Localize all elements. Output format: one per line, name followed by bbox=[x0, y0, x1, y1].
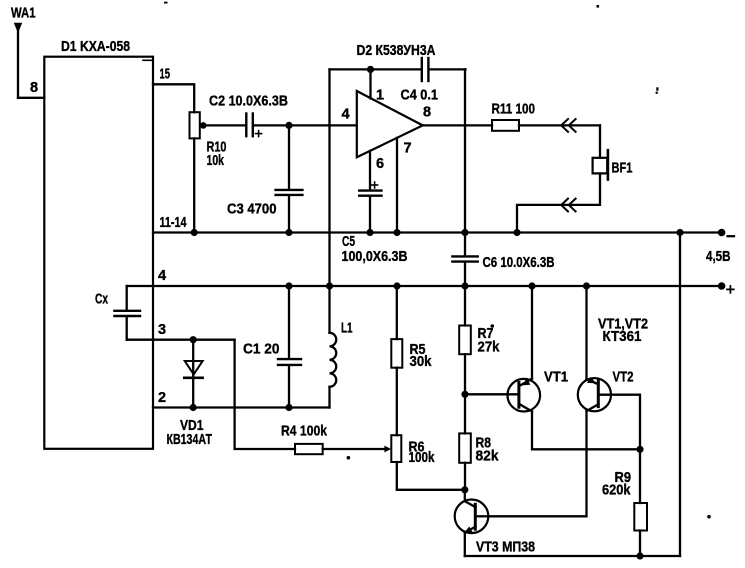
terminal minus bbox=[718, 229, 726, 237]
wire R11 to connector bbox=[519, 124, 600, 126]
capacitor C5 bbox=[359, 191, 381, 196]
node pin1 top junction bbox=[367, 66, 374, 73]
C5 plus mark bbox=[372, 182, 378, 188]
svg-text:15: 15 bbox=[160, 67, 171, 83]
svg-text:C6 10.0X6.3B: C6 10.0X6.3B bbox=[483, 255, 555, 271]
inductor L1 bbox=[330, 286, 337, 408]
wire Vcc top left segment bbox=[330, 68, 421, 70]
wire C6 column between rails bbox=[464, 233, 466, 256]
svg-text:100,0X6.3B: 100,0X6.3B bbox=[342, 249, 408, 265]
svg-text:VT2: VT2 bbox=[613, 370, 634, 386]
wire Vcc top right segment bbox=[429, 68, 465, 70]
stray specks bbox=[164, 2, 711, 519]
wire op-amp Vcc down to rail2 bbox=[328, 69, 330, 286]
transistor Q VT1 bbox=[508, 378, 541, 411]
svg-text:30k: 30k bbox=[410, 354, 433, 370]
wire VT1 emitter to rail2 bbox=[531, 286, 533, 379]
svg-text:BF1: BF1 bbox=[612, 161, 633, 177]
wire R6 bottom to VT3 base node bbox=[397, 462, 465, 490]
svg-text:4: 4 bbox=[158, 268, 166, 284]
resistor R6 (tuning) bbox=[391, 435, 401, 462]
wire pin 3 bbox=[127, 339, 235, 341]
wire pin 2 bbox=[153, 406, 330, 408]
svg-text:27k: 27k bbox=[478, 339, 501, 355]
wire right vertical to rail1 bbox=[679, 233, 681, 557]
terminal plus bbox=[718, 282, 726, 290]
svg-text:4,5В: 4,5В bbox=[706, 249, 731, 265]
svg-text:Cx: Cx bbox=[95, 292, 108, 308]
svg-text:VT3 МП38: VT3 МП38 bbox=[476, 540, 535, 556]
svg-text:620k: 620k bbox=[602, 483, 631, 499]
svg-text:C1 20: C1 20 bbox=[243, 342, 280, 358]
wire R10 bottom to rail1 bbox=[193, 138, 195, 232]
wire C3 top bbox=[288, 125, 290, 189]
resistor R5 column bbox=[396, 286, 398, 339]
node rail2 junctions bbox=[285, 282, 590, 289]
wire pin 6 upper bbox=[369, 151, 371, 190]
svg-text:8: 8 bbox=[423, 105, 431, 121]
wire rail1 pins 11-14 ground rail bbox=[153, 231, 718, 233]
svg-text:C3 4700: C3 4700 bbox=[227, 202, 277, 218]
svg-text:D2 К538УН3А: D2 К538УН3А bbox=[357, 43, 436, 59]
resistor R9 bbox=[639, 449, 641, 503]
wire R7 column from rail2 bbox=[464, 286, 466, 326]
wire VT2 emitter to rail2 bbox=[585, 286, 587, 379]
resistor R4 bbox=[295, 444, 323, 454]
wire VT2 base right and down bbox=[598, 395, 640, 450]
svg-text:C2 10.0X6.3B: C2 10.0X6.3B bbox=[209, 94, 288, 110]
box top-right artifact line bbox=[143, 59, 152, 61]
resistor R11 bbox=[492, 120, 519, 131]
svg-text:7: 7 bbox=[404, 141, 412, 157]
svg-text:2: 2 bbox=[158, 390, 166, 406]
svg-text:1: 1 bbox=[376, 88, 384, 104]
capacitor C6 bbox=[452, 256, 477, 261]
svg-text:3: 3 bbox=[158, 322, 166, 338]
capacitor C2 bbox=[246, 114, 253, 137]
C2 plus mark bbox=[256, 131, 262, 137]
node R7/R8/VT1 base bbox=[461, 391, 468, 398]
wire pin3 corner down to R4 bbox=[235, 340, 295, 449]
wire wiper to C2 bbox=[204, 124, 245, 126]
svg-text:VT1: VT1 bbox=[544, 370, 568, 386]
R6 wiper arrow bbox=[384, 446, 391, 453]
svg-text:82k: 82k bbox=[476, 449, 500, 465]
node base/R9 junction bbox=[636, 446, 643, 453]
wire BF1 bottom bbox=[517, 173, 600, 232]
svg-text:R4 100k: R4 100k bbox=[281, 423, 328, 439]
capacitor C4 bbox=[422, 58, 429, 81]
wire junction to op-amp input bbox=[289, 124, 357, 126]
wire pin 7 to rail1 bbox=[396, 138, 398, 233]
svg-text:L1: L1 bbox=[341, 321, 353, 337]
svg-text:4: 4 bbox=[342, 107, 350, 123]
svg-text:КТ361: КТ361 bbox=[603, 329, 642, 345]
wire VT1 base bbox=[465, 393, 519, 395]
wire bottom return bbox=[465, 555, 680, 557]
wire C2 to junction bbox=[254, 124, 289, 126]
op-amp U1 D2 triangle bbox=[357, 91, 423, 157]
node R9 bottom bbox=[636, 552, 643, 559]
wire antenna to pin 8 bbox=[18, 97, 44, 99]
capacitor C1 column bbox=[288, 286, 290, 358]
wire down to BF1 bbox=[599, 125, 601, 157]
svg-text:D1 KXA-058: D1 KXA-058 bbox=[61, 39, 130, 55]
node VD1 top bbox=[190, 336, 197, 343]
svg-text:6: 6 bbox=[376, 156, 384, 172]
svg-text:R11 100: R11 100 bbox=[492, 102, 536, 118]
wire VT1 collector down bbox=[532, 411, 640, 449]
svg-text:C4 0.1: C4 0.1 bbox=[401, 88, 439, 104]
svg-text:WA1: WA1 bbox=[11, 5, 36, 21]
IC D1 KXA-058 box bbox=[44, 57, 153, 449]
transistor Q VT2 bbox=[578, 377, 611, 411]
node C1 bottom bbox=[285, 404, 292, 411]
resistor R8 bbox=[459, 433, 471, 462]
connector chevrons bottom bbox=[561, 199, 575, 212]
wire op-amp output pin 8 bbox=[423, 124, 492, 126]
wire VT3 emitter down bbox=[464, 533, 466, 556]
resistor R7 bbox=[459, 326, 471, 355]
wire R4 to R6 wiper bbox=[323, 448, 386, 450]
antenna WA1 bbox=[14, 23, 22, 98]
resistor R10 (potentiometer) bbox=[190, 112, 200, 138]
R10 wiper tap bbox=[200, 122, 207, 129]
node rail1 junctions bbox=[191, 229, 684, 236]
node C2/C3 junction bbox=[285, 122, 292, 129]
svg-text:11-14: 11-14 bbox=[160, 215, 187, 231]
capacitor Cx column bbox=[126, 286, 128, 310]
wire pin 1 bbox=[369, 69, 371, 98]
wire right vertical C4 to C6 column bbox=[464, 69, 466, 232]
speaker BF1 bbox=[593, 150, 608, 179]
svg-text:C5: C5 bbox=[342, 234, 355, 250]
wire pin 15 bbox=[153, 84, 194, 112]
wire pin 6 lower to rail1 bbox=[369, 197, 371, 233]
wire rail2 supply rail pin 4 bbox=[127, 285, 718, 287]
svg-text:10k: 10k bbox=[207, 153, 225, 169]
wire VT2 collector down to VT3 bbox=[488, 411, 586, 516]
node R8/R6/VT3 base bbox=[461, 486, 468, 493]
wire C3 bottom to rail1 bbox=[288, 196, 290, 233]
svg-text:8: 8 bbox=[30, 80, 38, 96]
svg-text:КВ134АТ: КВ134АТ bbox=[167, 432, 213, 448]
capacitor C3 bbox=[276, 190, 303, 195]
transistor Q VT3 bbox=[455, 490, 489, 533]
node VD1 bottom bbox=[190, 404, 197, 411]
connector chevrons top bbox=[561, 119, 575, 132]
svg-text:100k: 100k bbox=[409, 450, 436, 466]
varicap VD1 bbox=[184, 340, 202, 408]
